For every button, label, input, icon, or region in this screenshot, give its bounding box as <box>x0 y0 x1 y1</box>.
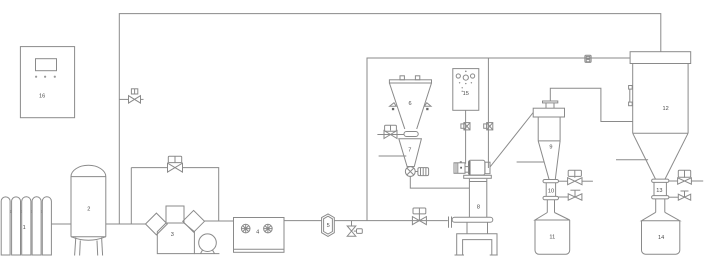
svg-text:4: 4 <box>256 229 259 235</box>
svg-text:2: 2 <box>87 206 90 212</box>
inlet flange at column base <box>449 217 452 228</box>
drain valve <box>347 221 362 237</box>
powder vessel 12 <box>629 52 691 179</box>
heater radiator 1 <box>1 197 51 255</box>
collection pot 14 <box>642 199 680 254</box>
leader line hopper 7 <box>379 155 407 157</box>
spray column 8 <box>469 179 486 217</box>
filter 5 <box>322 214 335 237</box>
wire 15 to atomizer motor <box>465 110 467 163</box>
svg-text:13: 13 <box>656 188 662 194</box>
control panel 16 <box>20 47 74 118</box>
wire blower to fan box <box>205 220 234 222</box>
leader line cyclone cone <box>517 161 545 163</box>
coupling on wire <box>484 123 493 130</box>
fan unit 4 <box>234 218 285 253</box>
collection pot 11 <box>535 200 570 255</box>
atomizer assembly on column 8 <box>454 160 491 178</box>
svg-text:5: 5 <box>327 223 330 229</box>
duct column to cyclone <box>490 113 533 168</box>
rotary valve 10 <box>543 180 559 200</box>
air duct capsule <box>452 217 493 222</box>
bypass valve <box>168 156 183 172</box>
wire radiator to tank <box>51 223 71 225</box>
svg-text:15: 15 <box>463 91 469 97</box>
wire tank to blower <box>106 223 146 225</box>
cyclone 9 <box>533 101 564 179</box>
wire fan to filter 5 <box>284 220 322 222</box>
svg-text:7: 7 <box>408 147 411 153</box>
column stand <box>455 222 498 255</box>
svg-text:16: 16 <box>39 93 45 99</box>
valve on riser <box>119 89 143 103</box>
feed valve of hopper 7 <box>377 125 404 138</box>
rotary valve 13 <box>652 179 669 199</box>
svg-text:12: 12 <box>662 106 668 112</box>
control box 15 <box>453 69 479 111</box>
wire main top loop <box>119 14 661 225</box>
svg-text:14: 14 <box>658 235 664 241</box>
wire feeder to column 8 <box>410 176 469 188</box>
tank 2 <box>71 165 106 255</box>
svg-text:9: 9 <box>549 144 552 150</box>
svg-text:3: 3 <box>171 232 174 238</box>
inline valve on main wire <box>412 208 426 225</box>
hopper 7 <box>399 139 422 167</box>
wire duct to atomizer right <box>487 58 489 168</box>
flange under hopper 6 <box>404 132 418 137</box>
discharge valves of 13 <box>669 170 703 184</box>
svg-text:10: 10 <box>548 188 554 194</box>
hopper 6 <box>389 76 431 129</box>
leader line vessel 12 cone <box>616 159 648 161</box>
damper on top duct <box>585 55 591 62</box>
bypass loop wire <box>130 168 132 224</box>
coupling on wire <box>461 123 470 130</box>
svg-text:6: 6 <box>408 101 411 107</box>
wire filter to column <box>334 220 448 222</box>
roots blower 3 <box>146 206 220 254</box>
svg-text:1: 1 <box>23 225 26 231</box>
svg-text:8: 8 <box>477 204 480 210</box>
svg-text:11: 11 <box>549 234 555 240</box>
discharge valves of 10 <box>559 170 593 185</box>
frame riser to top duct <box>367 58 630 221</box>
rotary feeder under 7 <box>405 167 428 177</box>
cyclone outlet wire to vessel 12 <box>550 88 632 121</box>
